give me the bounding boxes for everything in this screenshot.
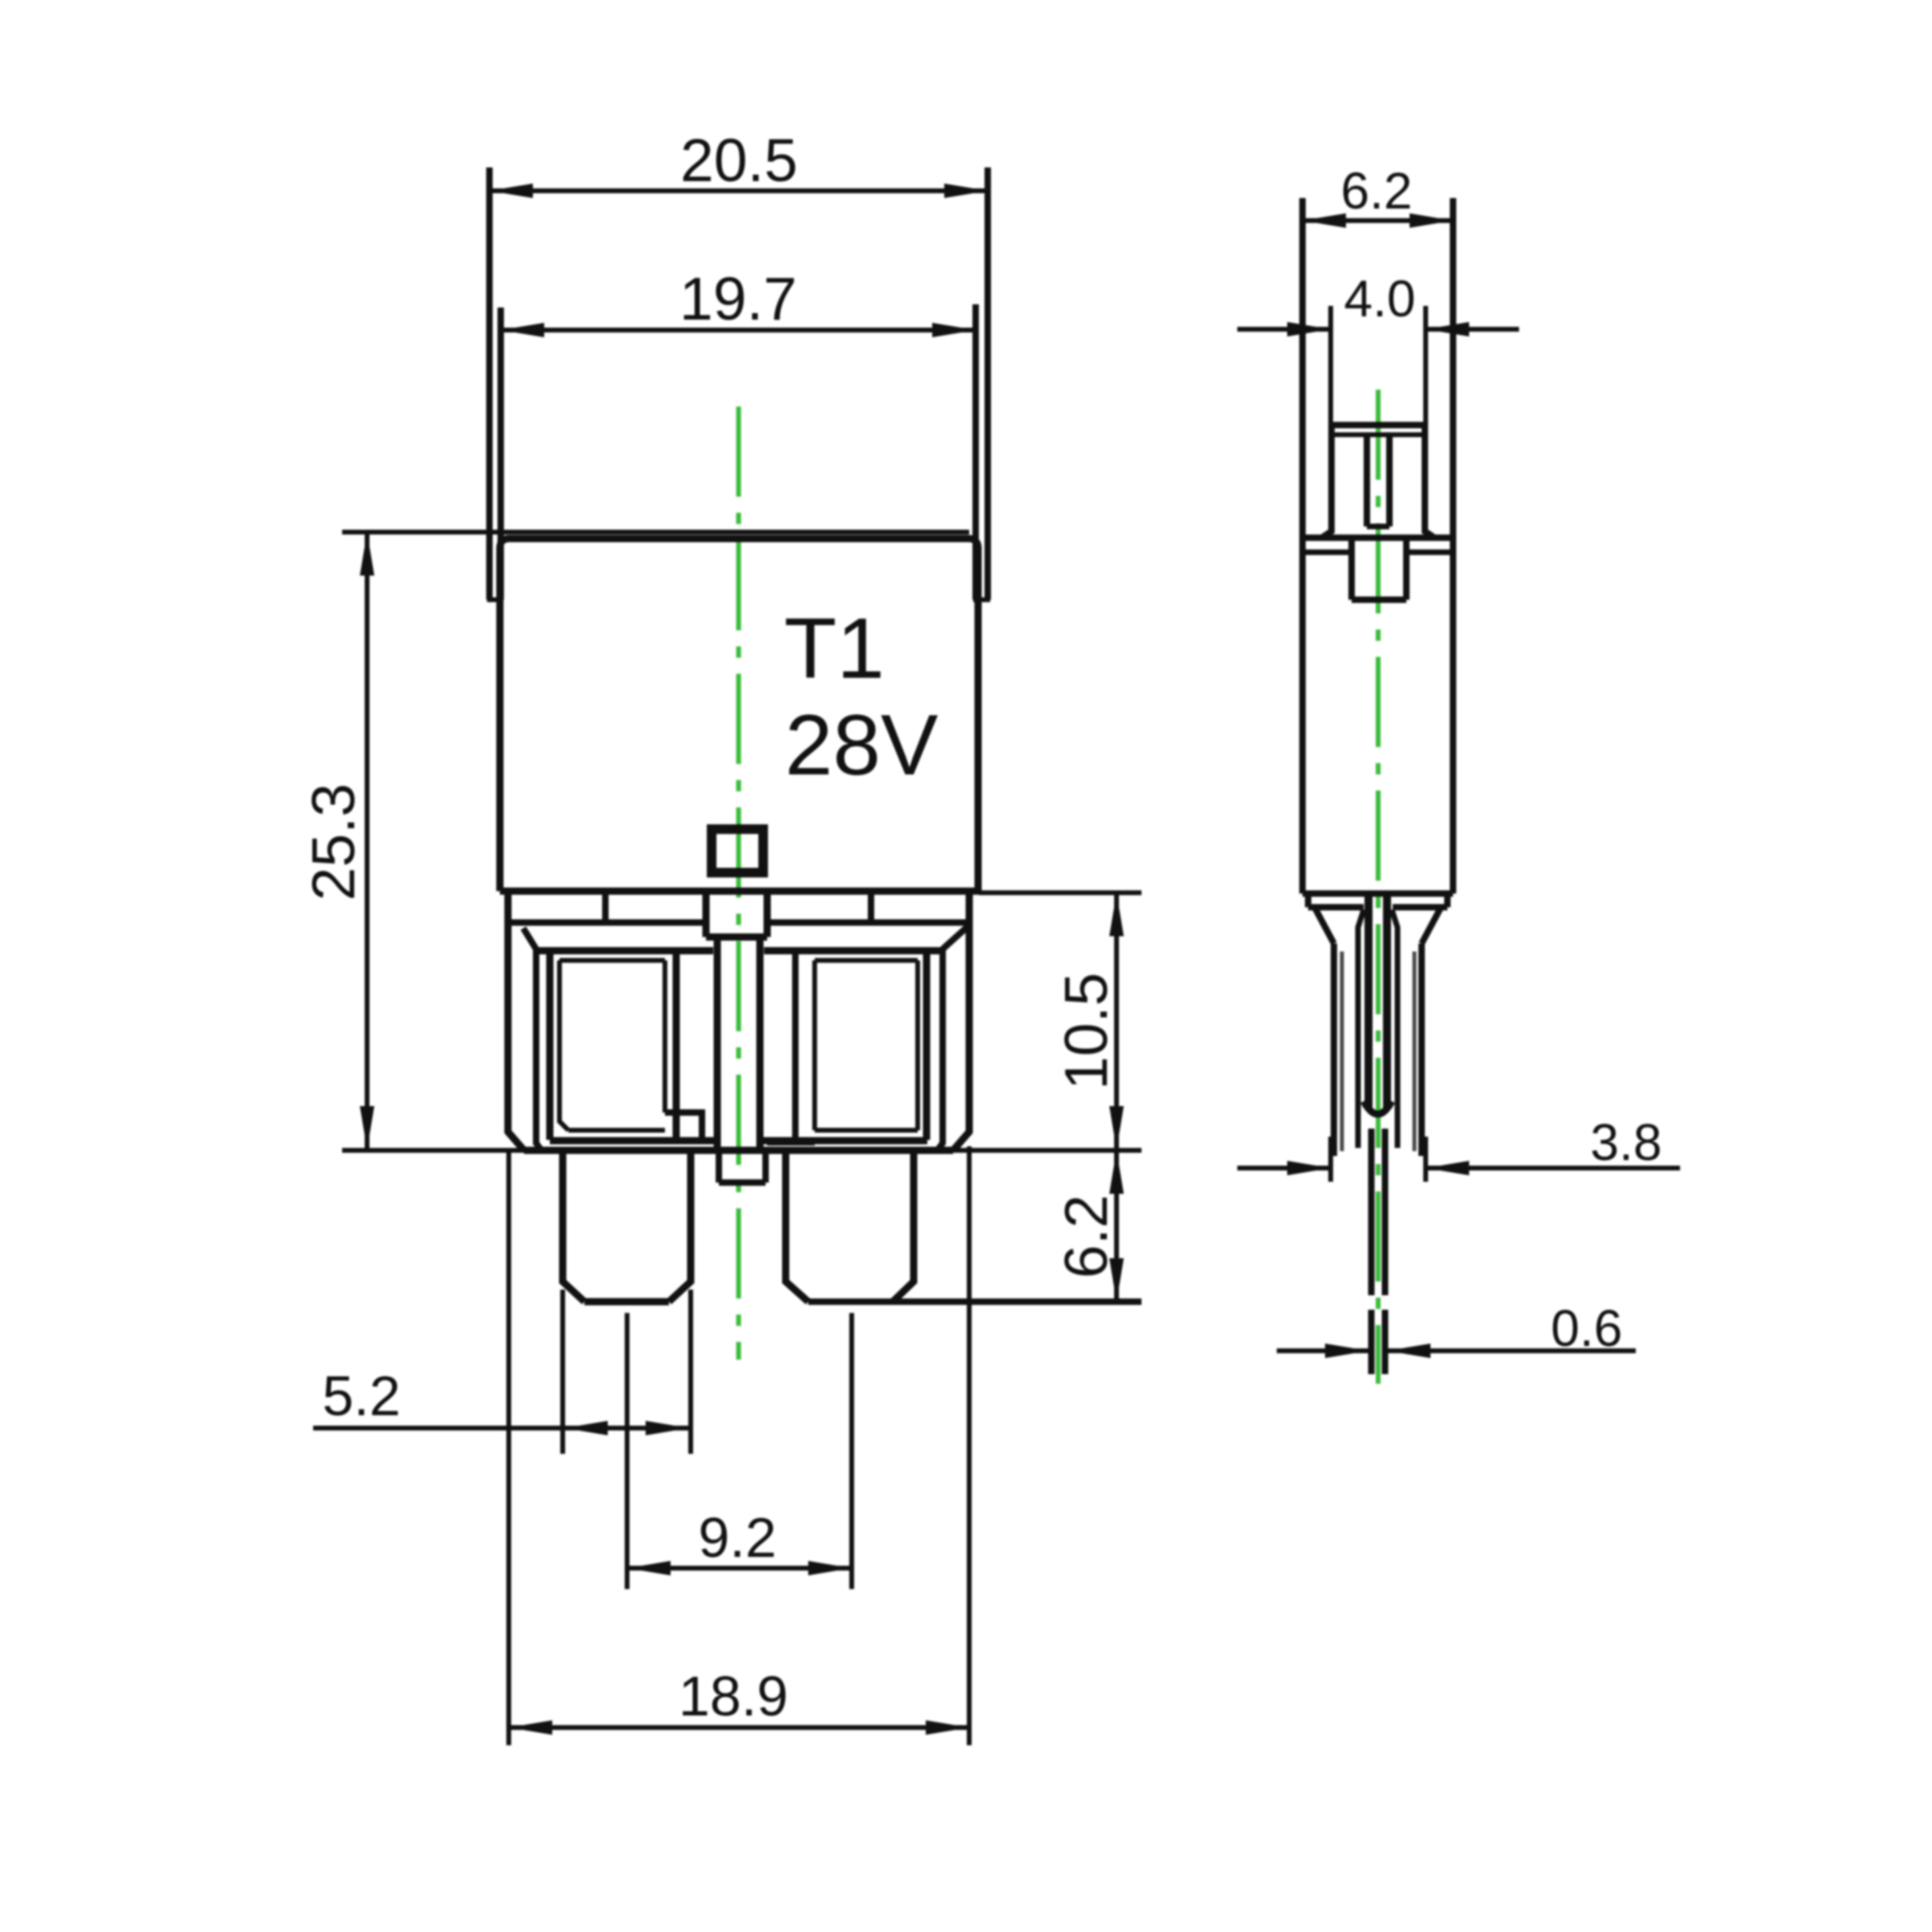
tab bottom tick left — [487, 597, 503, 602]
svg-text:5.2: 5.2 — [322, 1364, 400, 1427]
4.0 dimension line right segment — [1426, 327, 1519, 332]
3.8 dimension line right segment — [1426, 1166, 1680, 1170]
25.3 dimension line — [365, 532, 369, 1150]
right blade bottom and 6.2 extension line — [808, 1298, 1141, 1305]
6.2 right arrow top — [1109, 1150, 1124, 1194]
left window outer right edge — [673, 951, 680, 1140]
left blade bottom — [584, 1298, 669, 1306]
left window step — [665, 1113, 702, 1141]
center foot bottom — [719, 1179, 766, 1186]
side blade right edge upper — [1382, 1129, 1389, 1295]
side collar bottom left — [1308, 904, 1364, 910]
svg-text:4.0: 4.0 — [1344, 270, 1416, 328]
left window bottom line — [550, 1137, 717, 1145]
dimension 19.7 extension line left / tab left inner edge — [497, 308, 504, 600]
6.2 right arrow bottom — [1109, 1258, 1124, 1302]
dimension 20.5 arrow right — [944, 184, 988, 198]
side pedestal bottom — [1352, 597, 1406, 603]
right window step — [767, 1139, 815, 1146]
3.8 dimension line left segment — [1237, 1166, 1331, 1170]
side column shade line left — [1340, 952, 1344, 1151]
4.0 extension line left — [1328, 306, 1333, 425]
right blade right edge — [893, 1150, 914, 1302]
side blade right edge lower — [1382, 1310, 1389, 1374]
4.0 arrow right — [1426, 322, 1469, 336]
dimension 19.7 arrow left — [501, 323, 544, 337]
6.2 side arrow left — [1302, 213, 1346, 228]
6.2 right dimension line — [1114, 1150, 1119, 1302]
side collar right edge — [1444, 894, 1451, 907]
dimension 19.7 extension line right / tab right inner edge — [972, 304, 979, 600]
side tab slot bottom — [1367, 524, 1389, 530]
25.3 arrow bottom — [360, 1106, 374, 1150]
side blade left edge upper — [1368, 1129, 1375, 1295]
dimension 19.7 line — [501, 328, 976, 332]
front body outline — [500, 539, 978, 891]
right window bottom line — [760, 1137, 927, 1145]
window top line left — [536, 947, 713, 955]
dimension 19.7 arrow right — [932, 323, 976, 337]
dimension 20.5 extension line right / tab right outer edge — [985, 167, 991, 600]
side column outer left — [1331, 943, 1337, 1156]
dimension 20.5 extension line left / tab left outer edge — [486, 167, 493, 600]
5.2 extension line right — [688, 1290, 693, 1454]
4.0 dimension line left segment — [1237, 327, 1331, 332]
9.2 dimension line — [627, 1566, 852, 1571]
center foot left edge — [716, 1150, 722, 1183]
center column right line — [757, 937, 764, 1149]
side column band U bottom — [1364, 1101, 1392, 1114]
side collar bottom right — [1393, 904, 1447, 910]
side view green centerline — [1376, 390, 1381, 1384]
svg-text:10.5: 10.5 — [1052, 972, 1120, 1090]
right window inner right edge — [915, 960, 920, 1130]
side shoulder lower line right — [1406, 550, 1453, 555]
5.2 dimension line — [313, 1426, 693, 1430]
18.9 extension line right — [967, 1146, 972, 1745]
center foot right edge — [762, 1150, 769, 1183]
bottom extension line y1429 left part — [342, 1148, 524, 1153]
dimension 20.5 line — [489, 188, 988, 193]
side tab slot left — [1364, 435, 1370, 526]
18.9 dimension line — [509, 1725, 969, 1730]
side blade slot line right — [1383, 891, 1391, 1109]
side tab top line — [1331, 422, 1425, 428]
0.6 dimension line left segment — [1277, 1348, 1368, 1353]
side tab top inner line — [1334, 432, 1422, 437]
6.2 side dimension line — [1302, 218, 1453, 223]
3.8 arrow left — [1287, 1161, 1331, 1175]
10.5 extension line at body bottom right — [979, 890, 1141, 895]
right window outer left edge — [792, 951, 799, 1140]
left blade right edge — [669, 1150, 691, 1302]
left window outer left edge — [547, 951, 554, 1140]
right window inner top — [815, 958, 918, 963]
collar ledge bottom line left — [508, 919, 706, 926]
center tab left edge — [703, 891, 710, 937]
3.8 extension line right — [1423, 1137, 1428, 1182]
center column left line — [714, 937, 721, 1149]
9.2 arrow right — [808, 1561, 852, 1575]
housing bottom line — [524, 1147, 953, 1154]
3.8 arrow right — [1426, 1161, 1469, 1175]
housing inner wall right — [936, 949, 943, 1152]
svg-text:18.9: 18.9 — [679, 1665, 788, 1728]
housing inner wall left — [536, 949, 543, 1152]
3.8 extension line left — [1328, 1137, 1333, 1182]
25.3 arrow top — [360, 532, 374, 576]
indicator window square — [712, 829, 763, 873]
9.2 extension line right — [849, 1313, 854, 1589]
housing inner chamfer left — [523, 928, 536, 949]
4.0 extension line right — [1423, 306, 1428, 425]
center tab right edge — [764, 891, 771, 937]
side body right edge — [1450, 198, 1456, 894]
collar right ledge inner edge — [868, 891, 874, 923]
collar ledge bottom line right — [767, 919, 969, 926]
center tab bottom — [706, 934, 767, 941]
side slot edge right — [1392, 910, 1397, 1148]
9.2 extension line left — [625, 1313, 630, 1589]
svg-text:3.8: 3.8 — [1591, 1113, 1662, 1171]
side column outer right — [1418, 943, 1425, 1156]
side blade slot line left — [1364, 891, 1373, 1109]
right blade left edge — [786, 1150, 808, 1302]
right window inner left edge — [812, 960, 817, 1130]
svg-text:19.7: 19.7 — [679, 265, 797, 332]
side tab slot right — [1386, 435, 1393, 526]
side collar left edge — [1305, 894, 1311, 907]
side pedestal right edge — [1403, 538, 1410, 600]
9.2 arrow left — [627, 1561, 671, 1575]
svg-text:0.6: 0.6 — [1551, 1299, 1623, 1357]
svg-text:6.2: 6.2 — [1052, 1195, 1120, 1278]
right window inner bottom — [815, 1128, 918, 1133]
side funnel left — [1315, 909, 1334, 943]
4.0 arrow left — [1287, 322, 1331, 336]
10.5 dimension line — [1114, 893, 1119, 1150]
svg-text:9.2: 9.2 — [698, 1506, 776, 1569]
side slot edge left — [1358, 910, 1364, 1148]
side blade left edge lower — [1368, 1310, 1375, 1374]
5.2 arrow right — [646, 1421, 689, 1435]
5.2 extension line left — [560, 1290, 565, 1454]
window top line right — [764, 947, 943, 955]
10.5 arrow bottom — [1109, 1106, 1124, 1150]
front view green centerline — [737, 407, 741, 1360]
svg-text:T1: T1 — [784, 600, 885, 696]
collar left ledge inner edge — [602, 891, 609, 923]
dimension 20.5 arrow left — [489, 184, 533, 198]
6.2 side arrow right — [1410, 213, 1453, 228]
bottom extension line y1429 right part — [953, 1148, 1141, 1153]
svg-text:28V: 28V — [785, 696, 938, 793]
left window inner bottom — [568, 1128, 665, 1133]
left blade left edge — [563, 1150, 584, 1302]
left window inner left edge — [559, 960, 568, 1130]
18.9 extension line left — [506, 1150, 511, 1745]
side shoulder lower line left — [1302, 550, 1352, 555]
18.9 arrow right — [926, 1720, 969, 1735]
side funnel right — [1422, 909, 1440, 943]
side body bottom line — [1302, 890, 1453, 897]
housing inner chamfer right — [943, 927, 968, 949]
0.6 arrow right — [1387, 1344, 1430, 1358]
tab bottom tick right — [973, 597, 990, 602]
10.5 arrow top — [1109, 893, 1124, 936]
18.9 arrow left — [509, 1720, 552, 1735]
svg-text:25.3: 25.3 — [299, 783, 367, 901]
right window outer right edge — [923, 951, 931, 1140]
side pedestal left edge — [1348, 538, 1355, 600]
housing outer right edge with chamfer — [953, 891, 969, 1150]
svg-text:6.2: 6.2 — [1341, 162, 1413, 220]
side shoulder upper line — [1302, 535, 1453, 541]
housing outer left edge with chamfer — [508, 891, 524, 1150]
left window inner top — [559, 958, 665, 963]
25.3 top extension line — [342, 530, 969, 535]
0.6 dimension line right segment — [1387, 1348, 1636, 1353]
5.2 arrow left — [564, 1421, 608, 1435]
0.6 arrow left — [1325, 1344, 1368, 1358]
svg-text:20.5: 20.5 — [680, 126, 798, 194]
side tab left edge — [1322, 425, 1331, 538]
side body left edge — [1299, 198, 1306, 894]
side column shade line right — [1413, 952, 1417, 1151]
side tab right edge — [1425, 425, 1435, 538]
left window inner right edge — [663, 960, 667, 1113]
